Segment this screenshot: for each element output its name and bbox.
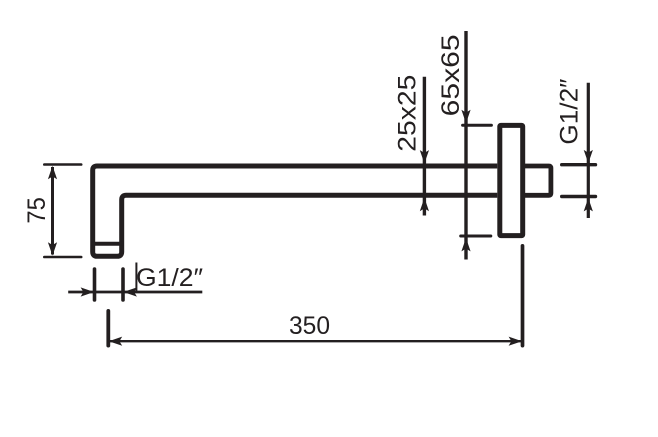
shower arm outline (wall end and top run) bbox=[93, 166, 498, 256]
outlet thread dimension: up arrowhead bbox=[584, 198, 593, 211]
label 350 bbox=[289, 312, 330, 340]
dimension 65x65: down arrowhead at flange top bbox=[461, 110, 470, 123]
dimension 25x25: up arrowhead at arm bottom bbox=[420, 198, 429, 211]
label 25x25 (rotated) bbox=[394, 75, 422, 152]
dimension 25x25: down arrowhead at arm top bbox=[420, 150, 429, 163]
dimension 350: left arrowhead bbox=[109, 337, 122, 346]
dimension 350: right arrowhead bbox=[509, 337, 522, 346]
wall thread dimension: small vertical bar at label bbox=[135, 263, 137, 292]
outlet thread dimension: vertical line bbox=[587, 83, 590, 218]
outlet thread dimension: down arrowhead bbox=[584, 150, 593, 163]
dimension 75: lower arrowhead bbox=[48, 242, 57, 255]
outlet stub G1/2 (right of flange) bbox=[525, 166, 551, 195]
svg-text:75: 75 bbox=[23, 197, 51, 224]
svg-text:25x25: 25x25 bbox=[394, 75, 422, 152]
label G1/2" (wall thread) bbox=[136, 264, 203, 292]
svg-text:G1/2″: G1/2″ bbox=[136, 264, 203, 292]
outlet thread dimension: top tick bbox=[562, 163, 596, 166]
label G1/2" (outlet thread, rotated) bbox=[556, 78, 584, 144]
dimension 350: dimension line bbox=[108, 340, 522, 342]
square flange 65x65 bbox=[500, 125, 523, 235]
dimension 25x25: vertical line through arm bbox=[423, 77, 426, 216]
svg-text:350: 350 bbox=[289, 312, 330, 340]
dimension 65x65: vertical line bbox=[464, 31, 467, 260]
svg-text:65x65: 65x65 bbox=[437, 34, 465, 116]
dimension 65x65: bottom extension tick bbox=[461, 235, 491, 238]
svg-text:G1/2″: G1/2″ bbox=[556, 78, 584, 144]
dimension 75: top tick bbox=[44, 163, 81, 166]
wall thread dimension: right extension line bbox=[121, 269, 125, 300]
wall thread dimension: right-pointing arrowhead bbox=[81, 287, 94, 296]
dimension 75: vertical dimension line bbox=[51, 167, 54, 255]
dimension 75: bottom tick bbox=[44, 256, 81, 259]
outlet thread dimension: bottom tick bbox=[562, 195, 596, 198]
label 75 (rotated) bbox=[23, 197, 51, 224]
dimension 65x65: up arrowhead at flange bottom bbox=[461, 238, 470, 251]
dimension 350: right extension line bbox=[521, 246, 525, 346]
dimension 75: upper arrowhead bbox=[48, 166, 57, 179]
wall thread dimension: left-pointing arrowhead bbox=[124, 287, 137, 296]
dimension 350: left extension line bbox=[106, 311, 110, 346]
wall thread separator line bbox=[91, 242, 124, 246]
label 65x65 (rotated) bbox=[437, 34, 465, 116]
wall thread dimension: left extension line bbox=[93, 269, 97, 300]
dimension 65x65: top extension tick bbox=[463, 124, 492, 127]
wall thread dimension: leader line bbox=[68, 291, 202, 294]
